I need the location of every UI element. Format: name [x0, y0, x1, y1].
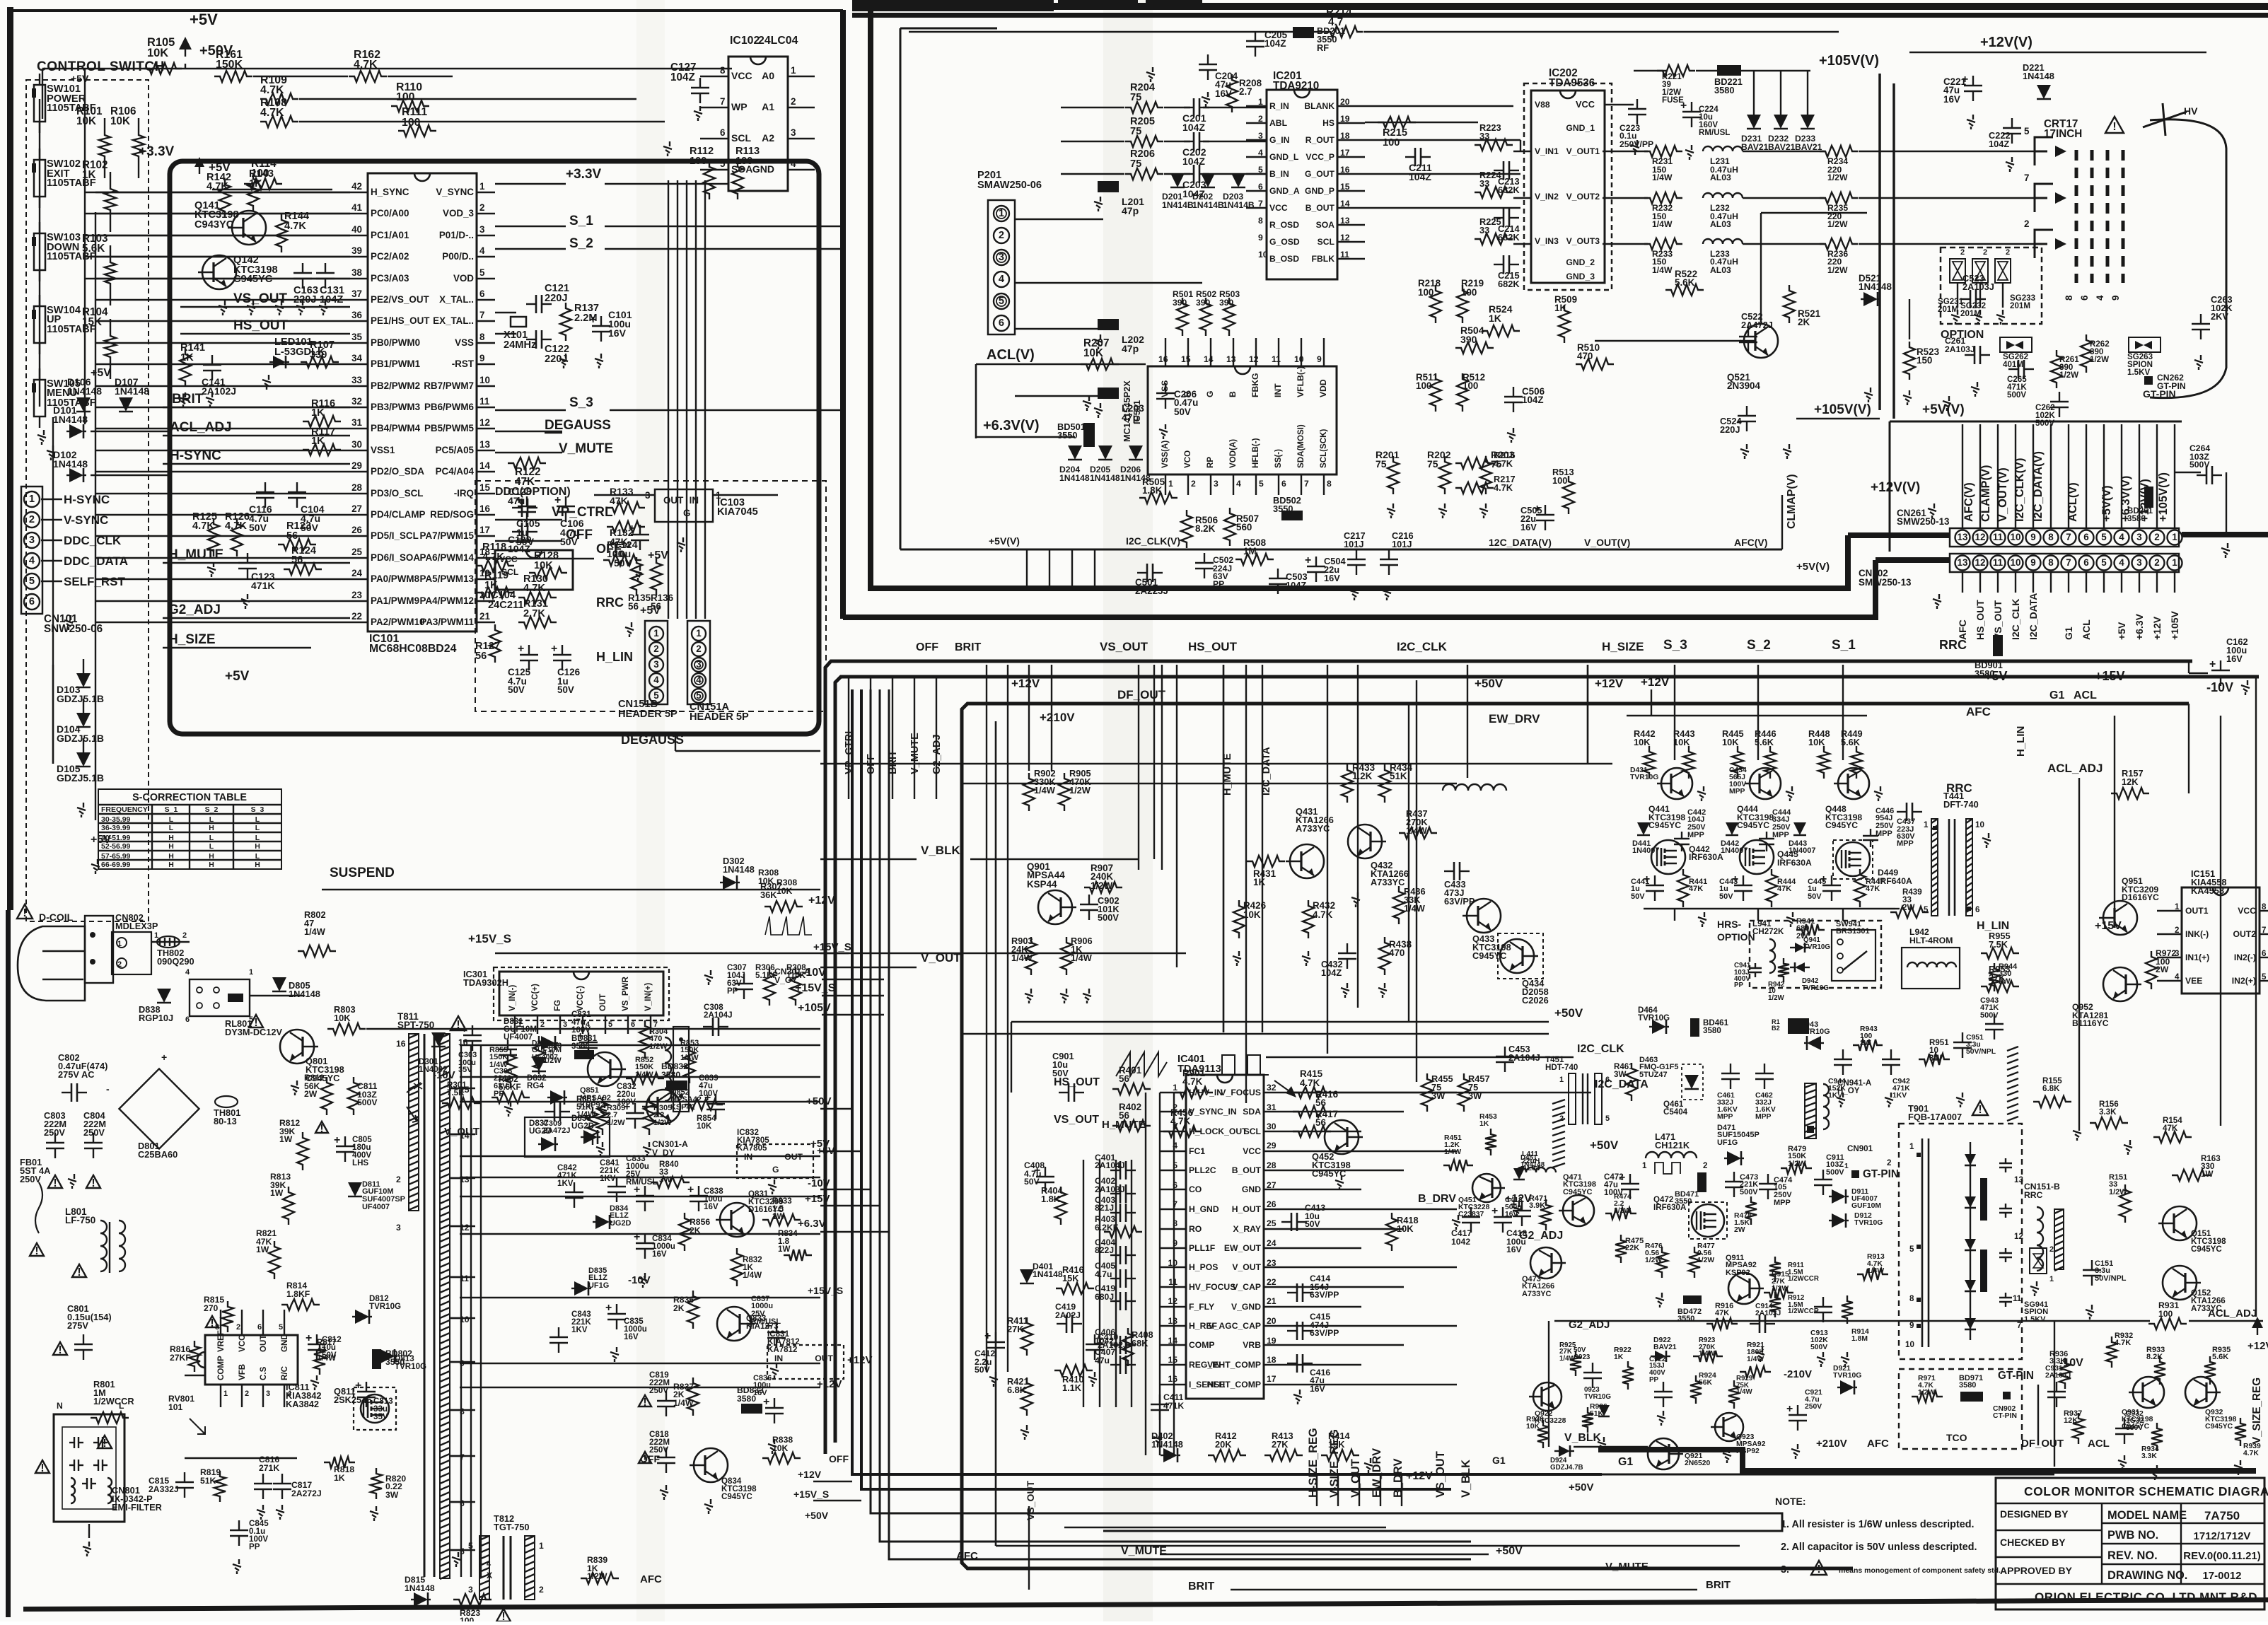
- svg-text:+: +: [634, 1231, 640, 1243]
- svg-text:47K: 47K: [2163, 1124, 2178, 1133]
- svg-text:2. All capacitor is 50V unless: 2. All capacitor is 50V unless descripte…: [1781, 1542, 1977, 1553]
- svg-text:VSS(A): VSS(A): [1161, 441, 1170, 468]
- svg-text:V_AGC_CAP: V_AGC_CAP: [1209, 1321, 1262, 1331]
- svg-text:3580: 3580: [1703, 1027, 1721, 1035]
- svg-text:+5V(V): +5V(V): [1796, 561, 1830, 573]
- svg-text:104Z: 104Z: [670, 71, 695, 83]
- svg-text:+50V: +50V: [1554, 1006, 1583, 1020]
- svg-text:500V: 500V: [1740, 1188, 1758, 1196]
- svg-text:11: 11: [1168, 1277, 1177, 1287]
- svg-text:R/C: R/C: [281, 1365, 289, 1380]
- svg-text:V_MUTE: V_MUTE: [1121, 1545, 1167, 1557]
- svg-text:1N4148: 1N4148: [53, 414, 88, 425]
- svg-text:25: 25: [351, 547, 362, 557]
- svg-text:PLL1F: PLL1F: [1189, 1243, 1215, 1253]
- svg-text:1.8M: 1.8M: [1851, 1335, 1868, 1343]
- svg-text:1K: 1K: [311, 407, 325, 419]
- svg-text:4: 4: [791, 158, 796, 169]
- svg-text:INT: INT: [1273, 383, 1283, 397]
- svg-text:7: 7: [2066, 532, 2071, 542]
- svg-text:+12V: +12V: [1406, 1470, 1433, 1482]
- svg-text:I2C_CLK: I2C_CLK: [1397, 640, 1448, 653]
- svg-text:TGT-750: TGT-750: [494, 1522, 530, 1532]
- svg-text:HS: HS: [1322, 118, 1334, 128]
- svg-text:16: 16: [479, 503, 490, 514]
- svg-text:80-13: 80-13: [214, 1116, 237, 1126]
- svg-text:+15V_S: +15V_S: [808, 1285, 843, 1296]
- svg-text:C943YC: C943YC: [194, 219, 234, 231]
- svg-text:6: 6: [2079, 296, 2090, 301]
- svg-text:3W: 3W: [385, 1490, 399, 1500]
- svg-text:C945YC: C945YC: [2191, 1245, 2222, 1254]
- svg-text:TVR10G: TVR10G: [1833, 1372, 1861, 1380]
- svg-text:PA1/PWM9: PA1/PWM9: [371, 595, 419, 606]
- svg-text:ACL: ACL: [2088, 1438, 2110, 1450]
- svg-text:ORION ELECTRIC CO.,LTD MNT R&D: ORION ELECTRIC CO.,LTD MNT R&D: [2035, 1590, 2257, 1604]
- svg-text:H: H: [255, 861, 260, 869]
- svg-text:V_BLK: V_BLK: [921, 844, 960, 857]
- svg-text:VFB: VFB: [238, 1364, 247, 1380]
- svg-text:6: 6: [185, 1015, 190, 1024]
- svg-text:33: 33: [351, 375, 362, 385]
- svg-text:PB5/PWM5: PB5/PWM5: [424, 423, 475, 433]
- svg-text:A733YC: A733YC: [1522, 1290, 1552, 1298]
- svg-text:1M: 1M: [1243, 546, 1257, 557]
- svg-text:C945YC: C945YC: [2122, 1423, 2150, 1431]
- svg-text:3: 3: [266, 1390, 270, 1398]
- svg-text:+12V: +12V: [2247, 1340, 2268, 1352]
- svg-text:OFF: OFF: [829, 1453, 849, 1464]
- svg-text:16: 16: [1158, 354, 1168, 364]
- svg-text:TVR10G: TVR10G: [1638, 1014, 1670, 1023]
- svg-text:C2026: C2026: [1522, 995, 1549, 1006]
- svg-text:V_OUT(V): V_OUT(V): [1584, 537, 1630, 548]
- svg-text:4: 4: [185, 968, 190, 977]
- svg-text:H_POS: H_POS: [1189, 1262, 1218, 1272]
- svg-text:+: +: [334, 1134, 340, 1146]
- svg-text:1KV: 1KV: [557, 1180, 574, 1188]
- svg-text:17: 17: [479, 525, 490, 535]
- svg-text:VS_OUT: VS_OUT: [1025, 1481, 1036, 1520]
- svg-text:2: 2: [696, 643, 701, 654]
- svg-text:1KV: 1KV: [600, 1175, 616, 1183]
- svg-text:201M: 201M: [2010, 302, 2030, 310]
- svg-text:A1: A1: [762, 101, 774, 112]
- svg-text:101J: 101J: [1344, 539, 1363, 549]
- svg-text:500V: 500V: [1980, 1011, 1999, 1020]
- svg-text:V_MUTE: V_MUTE: [1605, 1561, 1648, 1573]
- svg-text:50V/NPL: 50V/NPL: [1966, 1048, 1996, 1056]
- svg-text:PD6/I_SOA: PD6/I_SOA: [371, 552, 420, 563]
- svg-text:V_IN3: V_IN3: [1535, 236, 1559, 246]
- svg-text:CLMAP(V): CLMAP(V): [1786, 474, 1798, 529]
- svg-text:2: 2: [791, 96, 796, 107]
- svg-text:AFC: AFC: [1867, 1438, 1889, 1450]
- svg-text:275V: 275V: [67, 1320, 88, 1331]
- svg-text:37: 37: [351, 289, 362, 299]
- svg-text:3: 3: [468, 1585, 473, 1595]
- svg-text:2W: 2W: [1734, 1226, 1745, 1234]
- svg-text:3: 3: [2136, 557, 2141, 568]
- svg-text:4.7K: 4.7K: [1300, 1078, 1320, 1088]
- svg-text:3: 3: [479, 224, 484, 235]
- svg-text:AFC: AFC: [1957, 619, 1968, 640]
- svg-text:1.5KV: 1.5KV: [2024, 1315, 2046, 1324]
- svg-text:+: +: [306, 1332, 312, 1344]
- svg-text:SMW250-13: SMW250-13: [1859, 577, 1912, 588]
- svg-text:16V: 16V: [652, 1250, 667, 1259]
- svg-text:10: 10: [479, 375, 490, 385]
- svg-text:10K: 10K: [1722, 737, 1739, 747]
- svg-text:1: 1: [999, 208, 1004, 219]
- svg-text:VDD: VDD: [1318, 379, 1328, 397]
- svg-text:HFLB(-): HFLB(-): [1252, 438, 1260, 468]
- svg-text:INK(-): INK(-): [2185, 929, 2209, 939]
- svg-text:GND_A: GND_A: [1269, 186, 1300, 196]
- svg-text:V_BLK: V_BLK: [1564, 1432, 1602, 1444]
- svg-text:12: 12: [1975, 557, 1986, 568]
- svg-text:NOTE:: NOTE:: [1775, 1496, 1806, 1507]
- svg-text:AFC(V): AFC(V): [1734, 537, 1767, 548]
- svg-text:PB4/PWM4: PB4/PWM4: [371, 423, 421, 433]
- svg-text:UG2D: UG2D: [571, 1122, 594, 1131]
- svg-text:1N4148: 1N4148: [67, 385, 102, 397]
- svg-text:1K: 1K: [1253, 877, 1265, 887]
- svg-text:+5V(V): +5V(V): [989, 535, 1020, 547]
- svg-text:1N4148: 1N4148: [1151, 1439, 1183, 1450]
- svg-text:+12V: +12V: [798, 1469, 822, 1480]
- svg-text:5.6K: 5.6K: [1675, 277, 1695, 288]
- svg-text:PB1/PWM1: PB1/PWM1: [371, 359, 421, 369]
- svg-text:1. All resister is 1/6W unless: 1. All resister is 1/6W unless descripte…: [1781, 1519, 1975, 1530]
- svg-text:VCC: VCC: [1269, 203, 1288, 213]
- svg-text:FC1: FC1: [1189, 1146, 1205, 1156]
- svg-text:15K: 15K: [1062, 1273, 1079, 1283]
- svg-text:VSS: VSS: [455, 337, 474, 348]
- svg-text:1K: 1K: [1479, 1120, 1489, 1128]
- svg-text:1/2W: 1/2W: [1788, 1160, 1806, 1168]
- svg-text:H: H: [255, 843, 260, 851]
- svg-text:V_OUT: V_OUT: [1232, 1262, 1261, 1272]
- svg-text:+: +: [518, 643, 524, 655]
- svg-text:100: 100: [402, 117, 421, 129]
- svg-text:MPP: MPP: [1729, 788, 1745, 796]
- svg-text:1/2W: 1/2W: [1827, 265, 1848, 275]
- svg-text:5: 5: [696, 690, 702, 701]
- svg-text:V_BLK: V_BLK: [1460, 1460, 1472, 1498]
- svg-text:V_IN(-): V_IN(-): [508, 985, 517, 1011]
- svg-text:TDA9113: TDA9113: [1177, 1064, 1221, 1075]
- svg-text:100: 100: [1383, 137, 1400, 148]
- svg-text:KA7812: KA7812: [767, 1346, 797, 1354]
- svg-text:47u: 47u: [1095, 1356, 1110, 1365]
- svg-text:PA4/PWM12: PA4/PWM12: [420, 595, 474, 606]
- svg-text:G2_ADJ: G2_ADJ: [1519, 1230, 1563, 1242]
- svg-text:+50V: +50V: [1475, 677, 1504, 690]
- svg-text:SPT-750: SPT-750: [397, 1020, 434, 1030]
- svg-text:1: 1: [1168, 479, 1173, 489]
- svg-text:1: 1: [1844, 1163, 1849, 1170]
- svg-text:+12V: +12V: [1595, 677, 1624, 690]
- svg-text:8: 8: [1909, 1295, 1914, 1303]
- svg-text:C945YC: C945YC: [1825, 820, 1858, 830]
- svg-text:12: 12: [479, 417, 490, 428]
- svg-text:S_3: S_3: [251, 806, 264, 814]
- svg-text:GND_L: GND_L: [1269, 152, 1299, 162]
- svg-text:MPP: MPP: [1772, 831, 1789, 839]
- svg-text:+: +: [634, 1184, 640, 1196]
- svg-text:5: 5: [1909, 1245, 1914, 1254]
- svg-text:104Z: 104Z: [1286, 580, 1306, 590]
- svg-text:1: 1: [539, 1541, 544, 1551]
- svg-text:8: 8: [2048, 557, 2054, 568]
- svg-text:2N6520: 2N6520: [1685, 1460, 1711, 1467]
- svg-text:PB6/PWM6: PB6/PWM6: [424, 402, 474, 412]
- svg-text:H: H: [209, 861, 214, 869]
- svg-text:220J: 220J: [545, 293, 568, 304]
- svg-text:6: 6: [720, 127, 725, 138]
- svg-text:100: 100: [1462, 380, 1478, 391]
- svg-text:G1: G1: [1492, 1455, 1506, 1466]
- svg-text:VOD_3: VOD_3: [443, 208, 474, 219]
- svg-text:PE1/HS_OUT: PE1/HS_OUT: [371, 315, 430, 326]
- svg-text:32: 32: [1267, 1083, 1277, 1093]
- svg-text:1N4148: 1N4148: [53, 458, 88, 470]
- svg-text:2: 2: [1960, 248, 1965, 257]
- svg-text:I2C_DATA: I2C_DATA: [2028, 593, 2039, 640]
- svg-text:2: 2: [1983, 248, 1987, 257]
- svg-text:+50V: +50V: [1590, 1138, 1619, 1152]
- svg-text:4.7K: 4.7K: [354, 59, 378, 71]
- svg-text:!: !: [1978, 1104, 1982, 1116]
- svg-text:3: 3: [563, 1020, 567, 1029]
- svg-text:101J: 101J: [1392, 539, 1412, 549]
- svg-text:BRIT: BRIT: [1706, 1579, 1731, 1591]
- svg-text:10: 10: [1294, 354, 1304, 364]
- svg-text:PLL2C: PLL2C: [1189, 1165, 1216, 1175]
- svg-text:ACL_ADJ: ACL_ADJ: [2047, 762, 2103, 775]
- svg-text:1: 1: [518, 1020, 522, 1029]
- svg-text:4.7K: 4.7K: [260, 107, 284, 119]
- svg-text:I2C_CLK: I2C_CLK: [2010, 599, 2021, 640]
- svg-text:+5V: +5V: [209, 161, 231, 174]
- svg-text:CONTROL SWITCH: CONTROL SWITCH: [37, 59, 165, 74]
- svg-text:RRC: RRC: [1939, 638, 1967, 652]
- svg-text:UF4007: UF4007: [532, 1054, 558, 1061]
- svg-text:6: 6: [2083, 557, 2088, 568]
- svg-text:MPP: MPP: [1897, 839, 1914, 848]
- svg-text:+: +: [1491, 1205, 1498, 1217]
- svg-text:1/2W: 1/2W: [1768, 994, 1785, 1002]
- svg-text:VRB: VRB: [1243, 1340, 1261, 1350]
- svg-text:RRC: RRC: [2024, 1190, 2043, 1200]
- svg-text:PP: PP: [249, 1543, 260, 1551]
- svg-text:13: 13: [1226, 354, 1236, 364]
- svg-text:8: 8: [2064, 295, 2074, 301]
- svg-text:1/2WCCR: 1/2WCCR: [1788, 1275, 1819, 1283]
- svg-text:+5V: +5V: [91, 367, 111, 379]
- svg-text:3.: 3.: [1781, 1564, 1789, 1576]
- svg-text:+5V: +5V: [225, 669, 250, 684]
- svg-text:1/4W: 1/4W: [1652, 265, 1673, 275]
- svg-text:56: 56: [1119, 1110, 1129, 1121]
- svg-text:B: B: [1228, 391, 1238, 397]
- svg-text:L: L: [209, 843, 214, 851]
- svg-text:2A472J: 2A472J: [1741, 320, 1773, 330]
- svg-text:6: 6: [2083, 532, 2088, 542]
- svg-text:H_MUTE: H_MUTE: [168, 547, 223, 562]
- svg-text:1/2W: 1/2W: [607, 1119, 625, 1127]
- svg-text:1N4148: 1N4148: [1859, 281, 1892, 292]
- svg-text:16V: 16V: [1324, 573, 1340, 583]
- svg-text:1/4W: 1/4W: [1867, 1267, 1884, 1275]
- svg-text:5: 5: [249, 1015, 253, 1024]
- svg-text:2: 2: [999, 230, 1004, 241]
- svg-text:1/4W: 1/4W: [1699, 1350, 1716, 1358]
- svg-text:S_1: S_1: [1832, 638, 1856, 653]
- svg-text:P00/D..: P00/D..: [442, 251, 474, 262]
- svg-text:VCC: VCC: [238, 1334, 247, 1352]
- svg-text:2: 2: [1703, 1162, 1707, 1170]
- svg-text:10K: 10K: [334, 1013, 351, 1023]
- svg-text:15: 15: [479, 482, 490, 493]
- svg-text:MPP: MPP: [1687, 831, 1704, 839]
- svg-text:30: 30: [351, 439, 362, 450]
- svg-text:+105V: +105V: [798, 1002, 831, 1014]
- svg-text:682K: 682K: [1498, 279, 1520, 289]
- svg-text:66-69.99: 66-69.99: [101, 861, 131, 869]
- svg-text:D1616YC: D1616YC: [2122, 892, 2159, 902]
- svg-text:250V: 250V: [20, 1174, 41, 1184]
- svg-text:!: !: [254, 1017, 257, 1029]
- svg-text:2K: 2K: [1798, 317, 1810, 327]
- svg-text:C945YC: C945YC: [1648, 820, 1681, 830]
- svg-text:C23837: C23837: [1458, 1211, 1484, 1218]
- svg-text:COMP: COMP: [1189, 1340, 1215, 1350]
- svg-text:75: 75: [1130, 126, 1141, 137]
- svg-text:FREQUENCY: FREQUENCY: [101, 806, 148, 814]
- svg-text:1712/1712V: 1712/1712V: [2194, 1530, 2251, 1542]
- svg-text:4: 4: [1236, 479, 1241, 489]
- svg-text:1: 1: [791, 65, 796, 76]
- svg-text:100: 100: [396, 91, 415, 103]
- svg-text:36: 36: [351, 310, 362, 320]
- svg-text:470: 470: [1389, 948, 1405, 958]
- svg-text:EMI-FILTER: EMI-FILTER: [112, 1502, 162, 1513]
- svg-text:1.8K: 1.8K: [1142, 485, 1163, 496]
- svg-text:40: 40: [351, 224, 362, 235]
- svg-text:PC4/A04: PC4/A04: [436, 466, 475, 477]
- svg-text:2: 2: [117, 960, 122, 969]
- svg-text:BRS1301: BRS1301: [1836, 927, 1870, 936]
- svg-text:20K: 20K: [1215, 1439, 1232, 1450]
- svg-text:16V: 16V: [1943, 94, 1960, 105]
- svg-text:33: 33: [1479, 225, 1489, 235]
- svg-text:47K: 47K: [1866, 885, 1880, 893]
- svg-text:10K: 10K: [758, 876, 774, 886]
- svg-text:MODEL NAME: MODEL NAME: [2107, 1509, 2187, 1522]
- svg-text:1: 1: [696, 628, 702, 639]
- svg-text:S_3: S_3: [1663, 638, 1687, 653]
- svg-text:3580: 3580: [571, 1042, 590, 1051]
- svg-text:10: 10: [2011, 532, 2021, 542]
- svg-text:VEHT_COMP: VEHT_COMP: [1207, 1360, 1261, 1370]
- svg-text:B1116YC: B1116YC: [2072, 1018, 2109, 1028]
- svg-text:1/2W: 1/2W: [1069, 785, 1091, 796]
- svg-text:2: 2: [479, 202, 484, 213]
- svg-text:5: 5: [1605, 1114, 1610, 1123]
- svg-text:10: 10: [1905, 1341, 1914, 1349]
- svg-text:1N4148: 1N4148: [723, 864, 755, 875]
- svg-text:17: 17: [1267, 1374, 1277, 1384]
- svg-text:TVR10G: TVR10G: [1584, 1393, 1611, 1401]
- svg-text:TVR10G: TVR10G: [369, 1303, 401, 1311]
- svg-text:1: 1: [653, 628, 659, 639]
- svg-text:+: +: [1786, 1403, 1793, 1415]
- svg-text:SCL: SCL: [1244, 1126, 1262, 1136]
- svg-text:270: 270: [204, 1303, 219, 1313]
- svg-text:SCL: SCL: [1318, 237, 1335, 247]
- svg-text:PP: PP: [1213, 579, 1224, 589]
- svg-text:1W: 1W: [772, 1213, 784, 1221]
- svg-text:50V: 50V: [249, 522, 267, 533]
- svg-text:A733YC: A733YC: [1371, 877, 1405, 887]
- svg-text:2A272J: 2A272J: [291, 1489, 322, 1498]
- svg-text:3.9K: 3.9K: [1529, 1201, 1545, 1210]
- svg-text:MPP: MPP: [1774, 1199, 1791, 1207]
- svg-text:1.1K: 1.1K: [1062, 1382, 1082, 1393]
- svg-text:S_1: S_1: [569, 214, 593, 228]
- svg-text:VCC: VCC: [1243, 1146, 1261, 1156]
- svg-text:+5V: +5V: [71, 73, 89, 84]
- svg-text:GND_P: GND_P: [1305, 186, 1334, 196]
- svg-text:390: 390: [1196, 298, 1211, 308]
- svg-text:IC501: IC501: [1132, 400, 1142, 424]
- svg-text:1: 1: [2172, 532, 2177, 542]
- svg-text:VCC_P: VCC_P: [1305, 152, 1334, 162]
- svg-text:24LC04: 24LC04: [758, 35, 798, 47]
- svg-text:!: !: [35, 1245, 38, 1257]
- svg-text:HS_OUT: HS_OUT: [1054, 1076, 1100, 1088]
- svg-text:1W: 1W: [2201, 1170, 2213, 1179]
- svg-text:22: 22: [1267, 1277, 1277, 1287]
- svg-text:6: 6: [29, 596, 35, 607]
- svg-text:VEE: VEE: [2185, 976, 2202, 986]
- svg-text:PD2/O_SDA: PD2/O_SDA: [371, 466, 424, 477]
- svg-text:REV.0(00.11.21): REV.0(00.11.21): [2183, 1550, 2261, 1562]
- svg-text:26: 26: [351, 525, 362, 535]
- svg-text:GDZJ5.1B: GDZJ5.1B: [57, 772, 104, 784]
- svg-text:1/4W: 1/4W: [680, 1054, 699, 1062]
- svg-text:G1: G1: [2063, 627, 2074, 640]
- svg-text:16V: 16V: [608, 327, 627, 339]
- svg-text:PA6/PWM14: PA6/PWM14: [420, 552, 475, 563]
- svg-text:6: 6: [1605, 1076, 1610, 1084]
- svg-text:OPTION: OPTION: [1717, 931, 1755, 943]
- svg-text:CH272K: CH272K: [1752, 928, 1784, 936]
- svg-text:PC5/A05: PC5/A05: [436, 445, 475, 455]
- svg-text:+50V: +50V: [1569, 1481, 1593, 1493]
- svg-text:4: 4: [2119, 532, 2124, 542]
- svg-text:G_IN: G_IN: [1269, 135, 1289, 145]
- svg-text:V-SIZE_REG: V-SIZE_REG: [1328, 1429, 1341, 1498]
- svg-text:C945YC: C945YC: [1563, 1188, 1593, 1196]
- svg-text:TCO: TCO: [1946, 1432, 1967, 1443]
- svg-text:PC0/A00: PC0/A00: [371, 208, 409, 219]
- svg-text:RB7/PWM7: RB7/PWM7: [424, 380, 474, 391]
- svg-text:SOA: SOA: [1316, 220, 1335, 230]
- svg-text:6.2KF: 6.2KF: [1095, 1223, 1118, 1233]
